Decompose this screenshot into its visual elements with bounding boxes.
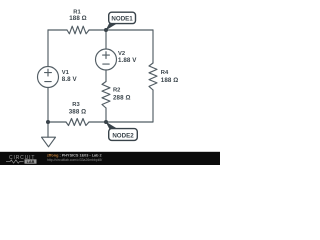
voltage source V1 <box>38 67 59 88</box>
wire top-left segment <box>48 29 67 31</box>
wire middle between V2 and R2 <box>105 70 107 82</box>
label V1 <box>62 70 78 83</box>
wire right vertical lower <box>152 90 154 122</box>
wire right vertical upper <box>152 30 154 63</box>
CircuitLab logo resistor glyph <box>6 160 24 163</box>
svg-text:1.88 V: 1.88 V <box>118 57 137 64</box>
svg-text:R4: R4 <box>161 70 169 76</box>
svg-text:R3: R3 <box>72 102 80 108</box>
node junction dot at NODE1 <box>104 28 108 32</box>
svg-text:288 Ω: 288 Ω <box>113 95 131 102</box>
svg-text:188 Ω: 188 Ω <box>161 77 179 84</box>
svg-text:188 Ω: 188 Ω <box>69 15 87 22</box>
node NODE2 flag box <box>109 129 138 141</box>
wire top-right segment <box>89 29 153 31</box>
footer bar <box>0 152 220 165</box>
svg-text:LAB: LAB <box>27 160 35 164</box>
node junction dot left bottom <box>46 120 50 124</box>
svg-text:8.8 V: 8.8 V <box>62 76 78 83</box>
node NODE1 flag box <box>109 12 136 23</box>
label R2 <box>113 88 131 102</box>
resistor R4 <box>149 63 157 90</box>
wire middle below R2 <box>105 108 107 122</box>
resistor R1 <box>67 26 89 34</box>
svg-text:NODE1: NODE1 <box>111 16 133 23</box>
label V2 <box>118 51 137 64</box>
svg-text:NODE2: NODE2 <box>112 132 134 139</box>
svg-text:http://circuitlab.com/c/33a26m: http://circuitlab.com/c/33a26mbbpk5/ <box>47 158 102 162</box>
label R4 <box>161 70 179 84</box>
label R3 <box>69 102 87 116</box>
voltage source V2 <box>96 49 117 70</box>
label R1 <box>69 10 87 22</box>
node junction dot at NODE2 <box>104 120 108 124</box>
wire bottom-right segment <box>89 121 153 123</box>
node NODE2 flag tail <box>106 122 118 130</box>
wire left vertical lower <box>47 88 49 138</box>
resistor R2 <box>102 82 110 109</box>
svg-text:388 Ω: 388 Ω <box>69 109 87 116</box>
wire bottom-left segment <box>48 121 66 123</box>
wire middle upper <box>105 30 107 49</box>
resistor R3 <box>66 119 89 126</box>
CircuitLab logo LAB box <box>25 159 37 163</box>
node NODE1 flag tail <box>106 23 118 31</box>
wire left vertical upper <box>47 30 49 67</box>
ground <box>42 137 56 147</box>
svg-text:R2: R2 <box>113 88 120 94</box>
